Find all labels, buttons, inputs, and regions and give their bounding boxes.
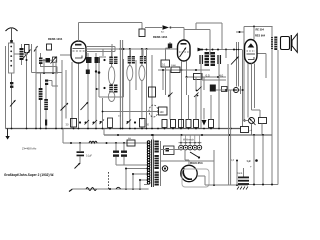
wire [129,49,131,129]
resistor R18 [209,120,214,128]
label 3uF [247,159,258,169]
resistor R20 [161,60,170,67]
wire [262,135,264,185]
svg-text:0,1: 0,1 [162,64,166,67]
wire [184,30,210,56]
IF transformer T1a [103,57,117,65]
wire [231,159,239,185]
resistor R12b [159,107,168,115]
power transformer primary [147,141,150,184]
diode arrow [161,25,172,33]
wire [203,77,205,90]
coil L3 [44,99,48,110]
diode arrow [198,48,204,52]
component [47,44,52,50]
label RGN354 [190,161,203,165]
label [66,123,69,127]
capacitor C7 [139,29,145,37]
wire [65,70,67,119]
label RENS 1204 [48,37,63,41]
wire [195,95,197,120]
tube V3 RE304 [245,40,258,64]
wire [253,135,255,185]
tube V2 RENS1264 [178,40,191,61]
lamp feed pair [236,42,240,87]
potentiometer P1 [149,105,158,117]
wire [131,49,144,56]
resistor R19 [259,118,267,124]
potentiometer P2 [243,118,255,126]
wire [201,49,242,51]
wire [52,62,54,73]
wire [202,79,226,81]
capacitor C11 [218,55,220,64]
power transformer core [152,140,154,188]
voltage selector [125,168,148,190]
wire [32,44,63,73]
wire [111,49,113,93]
svg-text:RGN 354: RGN 354 [190,161,203,165]
wire [135,60,137,90]
wire [196,23,222,50]
wire [43,60,45,73]
mains wire [72,188,149,190]
svg-text:Funk.: Funk. [237,173,243,175]
wire [95,53,97,129]
ground [5,129,9,140]
label [22,147,37,151]
coil former [127,66,133,81]
svg-text:140: 140 [160,111,165,114]
wire [55,60,57,129]
wire [186,77,188,95]
wire [251,124,253,136]
label [237,173,243,175]
wire [145,27,162,29]
svg-text:RE 304: RE 304 [256,28,265,31]
capacitor C19 [210,85,216,92]
wire [182,169,209,187]
wire [79,23,143,42]
caption [4,173,54,177]
wire [186,76,227,78]
capacitor C9 [168,44,172,49]
tube V1 RENS1204 [71,41,86,63]
wire [86,47,115,52]
wire [161,150,215,185]
wire [96,57,124,97]
svg-text:RES 964: RES 964 [255,34,266,37]
label RENS 1264 [153,35,168,39]
wire [252,64,261,118]
wire [102,98,104,129]
svg-text:Großkopf/Jahn-Super 2 (1932) W: Großkopf/Jahn-Super 2 (1932) W. [4,173,54,177]
electrolytic capacitor C15 [237,168,249,190]
wire [203,108,205,120]
wire [40,53,42,67]
heater line [63,129,147,145]
wire [61,60,63,129]
resistor R16 [186,120,191,128]
diode detector [202,120,207,126]
coil L1 antenna [9,43,15,73]
label Wellenschalter [183,139,195,142]
wire [5,46,7,129]
trimmer C21 [51,57,57,64]
wire [195,77,197,90]
power transformer secondary 1 [155,141,159,153]
AVC wire [102,111,159,118]
wire [188,95,190,120]
wire marker [194,93,199,98]
resistor R21 [164,146,175,155]
wire [40,73,42,129]
switch arrow [75,163,81,169]
trimmer arrow [10,100,16,107]
capacitor C17 [113,143,119,165]
loudspeaker [281,34,298,53]
coil former [108,67,114,85]
capacitor C20 [222,87,228,92]
svg-text:30: 30 [146,123,149,127]
wire [181,61,183,129]
svg-text:+: + [250,165,252,169]
label [146,123,149,127]
capacitor C13 [241,127,253,133]
power transformer secondary 2 [155,155,159,169]
wire [14,53,20,55]
wire [36,72,58,74]
capacitor C6 [95,57,101,73]
svg-text:µF: µF [250,130,253,132]
dial lamp LP2 [162,166,167,171]
wire [78,63,80,129]
svg-text:1000: 1000 [171,65,177,67]
mains terminal [69,189,73,192]
svg-text:Ant: Ant [161,31,165,34]
capacitor C1 [10,82,13,88]
coil L2s [20,48,24,60]
wire [257,54,266,79]
wire [71,62,73,129]
resistor R3 [71,119,77,128]
wire [216,89,240,91]
coil L2 [39,88,43,100]
wire [26,52,28,129]
wire marker [100,120,105,125]
trimmer C3 [23,45,31,59]
wire [225,50,227,59]
wire [43,59,53,61]
wire [56,67,58,74]
capacitor C5 [86,57,92,74]
capacitor C18 [121,143,127,165]
wire [45,85,47,129]
wire [87,53,89,129]
resistor R9 [140,119,146,128]
wire [161,150,190,166]
capacitor C23 [108,118,113,129]
output transformer [271,26,278,185]
svg-text:4,0: 4,0 [219,74,224,78]
svg-text:Wellensch.: Wellensch. [183,139,195,142]
wire [60,54,71,56]
wire [244,26,273,121]
variable capacitor arrow [231,57,239,65]
wire [141,49,143,120]
resistor R13 [162,120,176,128]
rotary switch S2 [179,135,202,159]
IF transformer T2b [211,52,216,66]
wire [40,66,57,68]
power transformer secondary 3 [155,172,159,186]
resistor R17 [194,120,199,128]
wire [210,95,212,120]
HT bottom rail [248,184,278,186]
wire [186,61,188,77]
wire [247,64,249,118]
capacitor C4 [43,58,50,63]
svg-text:3µF: 3µF [247,159,252,163]
wire [236,31,244,33]
variable capacitor arrow [61,103,69,111]
wire marker [196,87,202,92]
wire [151,55,153,129]
IF transformer T2a [205,52,210,66]
wire [102,49,104,56]
tuning gang shaft [120,40,122,129]
IF transformer T1b [103,85,117,93]
wire [227,64,229,90]
wire [229,90,231,185]
wire [160,141,162,186]
wire [146,49,148,129]
wire [35,47,37,129]
svg-text:0,5: 0,5 [206,74,211,78]
variable capacitor arrow [81,102,89,110]
wire [11,73,13,129]
coil former [108,92,114,102]
rectifier tube V4 RGN354 [181,165,197,181]
antenna [6,28,18,44]
wire [218,64,220,129]
bump [116,187,121,189]
resistor R12 [149,87,156,97]
label RE304 [255,28,266,37]
wire [200,64,202,129]
wire marker [93,120,98,125]
svg-text:30: 30 [66,123,69,127]
wire marker [168,93,173,98]
capacitor C10 [200,55,202,64]
svg-text:Zf=468 kHz: Zf=468 kHz [22,147,37,151]
wire [261,124,263,136]
wire marker [127,120,137,125]
junction [79,121,81,123]
wire [111,44,113,56]
fuse F2 [86,188,96,191]
wire [169,70,171,120]
svg-text:RENS 1264: RENS 1264 [153,35,168,39]
HT rail [205,184,248,186]
wire [242,50,244,127]
wire [115,48,178,50]
chassis bus [104,129,272,137]
ground bus [6,128,241,130]
coil L5 [140,56,147,64]
fuse F3 [127,137,135,146]
wire [162,69,164,90]
capacitor C14 [77,143,93,164]
capacitor C22 [45,80,58,87]
wire [254,64,256,109]
choke L6 [89,141,97,143]
svg-text:RENS 1204: RENS 1204 [48,37,63,41]
wire [116,164,147,166]
resistor R15 [179,120,184,128]
svg-text:0,1µF: 0,1µF [86,156,93,158]
label [206,74,224,78]
resistor R10 [171,65,180,73]
wire [166,42,171,60]
dial lamp [234,86,241,94]
wire [165,67,167,95]
wire [158,69,210,71]
wire [141,23,143,30]
resistor R11 [194,74,203,80]
wire [171,28,185,41]
wire [152,134,154,139]
wire [22,44,28,65]
switch S1 link [108,172,110,189]
wire marker [85,120,90,125]
coil L4 [128,56,135,64]
coil former [139,66,145,81]
wire [34,46,38,52]
coil L7 [39,58,43,65]
